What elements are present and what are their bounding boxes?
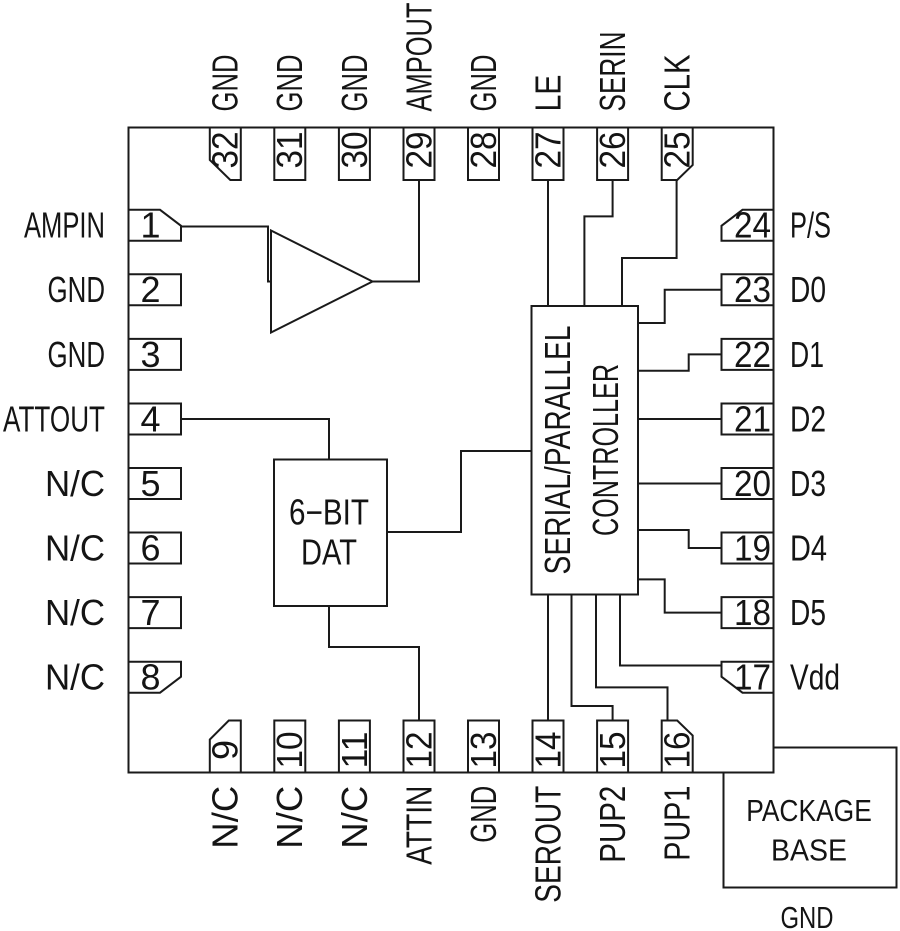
svg-text:20: 20 — [734, 463, 771, 504]
svg-text:CLK: CLK — [657, 55, 698, 112]
svg-text:ATTIN: ATTIN — [398, 786, 439, 865]
svg-text:4: 4 — [140, 398, 160, 439]
svg-text:10: 10 — [269, 732, 310, 769]
svg-text:AMPOUT: AMPOUT — [398, 2, 439, 111]
svg-text:6−BIT: 6−BIT — [289, 491, 369, 532]
svg-text:N/C: N/C — [45, 463, 105, 504]
svg-text:GND: GND — [48, 269, 106, 310]
svg-text:12: 12 — [398, 732, 439, 769]
svg-text:16: 16 — [657, 732, 698, 769]
svg-text:CONTROLLER: CONTROLLER — [585, 364, 626, 536]
svg-text:GND: GND — [48, 334, 106, 375]
svg-text:18: 18 — [734, 592, 771, 633]
svg-text:5: 5 — [140, 463, 160, 504]
svg-text:PUP1: PUP1 — [657, 786, 698, 861]
svg-text:N/C: N/C — [269, 786, 310, 849]
svg-text:SERIN: SERIN — [592, 32, 633, 112]
svg-text:13: 13 — [463, 732, 504, 769]
svg-text:D5: D5 — [790, 592, 826, 633]
svg-text:BASE: BASE — [771, 834, 847, 868]
svg-text:25: 25 — [657, 132, 698, 169]
svg-text:SEROUT: SEROUT — [527, 786, 568, 903]
svg-text:30: 30 — [334, 132, 375, 169]
svg-text:GND: GND — [463, 54, 504, 111]
svg-text:P/S: P/S — [790, 205, 831, 246]
svg-text:PACKAGE: PACKAGE — [746, 794, 872, 828]
svg-text:N/C: N/C — [45, 527, 105, 568]
svg-text:28: 28 — [463, 132, 504, 169]
svg-text:D2: D2 — [790, 398, 826, 439]
svg-text:SERIAL/PARALLEL: SERIAL/PARALLEL — [537, 326, 578, 575]
svg-text:N/C: N/C — [334, 786, 375, 849]
svg-text:7: 7 — [140, 592, 160, 633]
svg-text:19: 19 — [734, 527, 771, 568]
svg-text:N/C: N/C — [205, 786, 246, 849]
svg-text:11: 11 — [334, 732, 375, 769]
svg-text:21: 21 — [734, 398, 771, 439]
svg-text:LE: LE — [527, 75, 568, 112]
svg-text:6: 6 — [140, 527, 160, 568]
svg-text:27: 27 — [527, 132, 568, 169]
svg-text:N/C: N/C — [45, 657, 105, 698]
svg-text:DAT: DAT — [301, 531, 357, 572]
svg-text:3: 3 — [140, 334, 160, 375]
svg-text:8: 8 — [140, 657, 160, 698]
svg-text:AMPIN: AMPIN — [24, 205, 105, 246]
svg-text:Vdd: Vdd — [790, 657, 840, 698]
svg-text:1: 1 — [140, 205, 160, 246]
svg-text:D1: D1 — [790, 334, 824, 375]
svg-text:24: 24 — [734, 205, 771, 246]
svg-text:26: 26 — [592, 132, 633, 169]
svg-text:17: 17 — [734, 657, 771, 698]
svg-text:32: 32 — [205, 132, 246, 169]
svg-text:23: 23 — [734, 269, 771, 310]
svg-text:GND: GND — [269, 55, 310, 112]
svg-text:2: 2 — [140, 269, 160, 310]
svg-text:22: 22 — [734, 334, 771, 375]
svg-text:GND: GND — [781, 900, 834, 931]
svg-text:14: 14 — [527, 732, 568, 769]
svg-text:GND: GND — [205, 54, 246, 111]
svg-text:D3: D3 — [790, 463, 826, 504]
svg-text:D4: D4 — [790, 527, 827, 568]
svg-text:GND: GND — [463, 786, 504, 843]
svg-text:GND: GND — [334, 55, 375, 112]
svg-text:PUP2: PUP2 — [592, 786, 633, 863]
svg-text:31: 31 — [269, 132, 310, 169]
svg-text:D0: D0 — [790, 269, 826, 310]
svg-text:9: 9 — [205, 740, 246, 760]
svg-text:29: 29 — [398, 132, 439, 169]
svg-text:15: 15 — [592, 732, 633, 769]
svg-text:N/C: N/C — [45, 592, 105, 633]
svg-text:ATTOUT: ATTOUT — [3, 398, 105, 439]
